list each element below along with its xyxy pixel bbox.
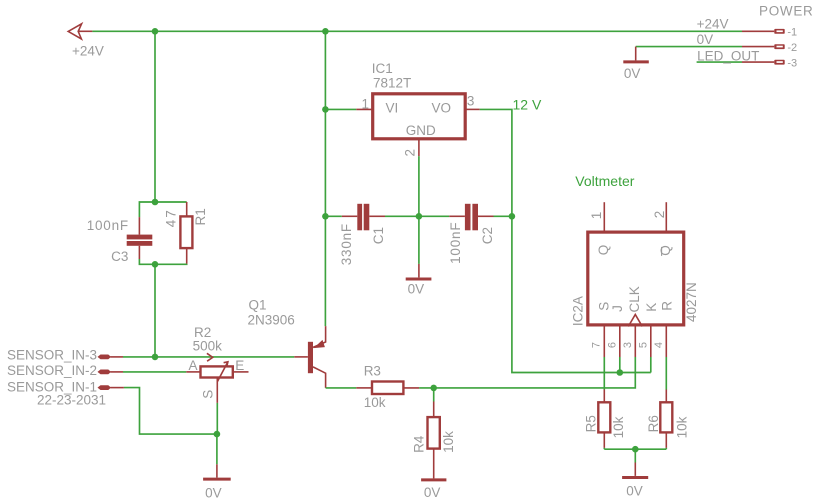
wire LED_OUT stub (697, 61, 742, 63)
node junction trunk2/top rail (322, 28, 329, 35)
wire J pin down (619, 357, 621, 373)
capacitor C3 top pin (138, 217, 140, 235)
wire C3 top link (139, 202, 155, 217)
svg-text:4: 4 (653, 342, 665, 348)
ground pin stub (cap row) (418, 264, 420, 278)
ground bar (pot) (203, 478, 231, 481)
ground pin stub (R5R6) (634, 463, 636, 476)
node junction gnd row (632, 446, 639, 453)
ground bar (power) (623, 60, 649, 63)
ground pin stub (pot) (216, 464, 218, 477)
resistor R3 body (372, 382, 403, 395)
svg-text:SENSOR_IN-2: SENSOR_IN-2 (7, 363, 97, 378)
resistor R1 top pin (186, 202, 188, 216)
node junction mid cap row (416, 213, 423, 220)
svg-text:IC1: IC1 (372, 61, 393, 76)
potentiometer R2 pin A stub (186, 371, 200, 373)
svg-text:10k: 10k (611, 416, 626, 438)
svg-text:J: J (610, 305, 625, 312)
svg-text:6: 6 (607, 342, 619, 348)
wire 0V net to connector (636, 46, 742, 48)
connector X1 pin -2 stub (742, 46, 774, 48)
svg-text:2: 2 (652, 211, 667, 219)
wire R1 bottom link (155, 263, 187, 265)
IC2A pin 5 stub (K) (650, 325, 652, 357)
potentiometer R2 wiper arrow diagonal (217, 362, 228, 382)
wire to IC1 VI (325, 108, 356, 110)
svg-text:R1: R1 (193, 208, 208, 225)
IC1 box (373, 94, 466, 139)
svg-text:1: 1 (589, 212, 604, 220)
resistor R4 top pin (433, 402, 435, 418)
svg-text:K: K (644, 303, 659, 312)
resistor R3 left pin (356, 387, 372, 389)
svg-text:C1: C1 (371, 227, 386, 244)
svg-text:330nF: 330nF (339, 223, 354, 265)
svg-text:S: S (200, 390, 215, 399)
supply arrow pin stub (78, 30, 93, 32)
svg-text:GND: GND (406, 123, 436, 138)
node junction R3/R4 (430, 385, 437, 392)
connector SL1 pad 3 (98, 355, 112, 360)
wire K pin down (650, 357, 652, 373)
node junction R1C3 bottom (152, 261, 159, 268)
wire sensor3 row (123, 356, 294, 358)
svg-text:Q1: Q1 (249, 298, 267, 313)
connector X1 pad -1 (774, 29, 784, 34)
resistor R6 top pin (665, 390, 667, 403)
svg-text:Q: Q (596, 245, 611, 256)
svg-text:SENSOR_IN-3: SENSOR_IN-3 (7, 348, 97, 363)
svg-text:-3: -3 (787, 58, 797, 70)
svg-text:4027N: 4027N (684, 282, 699, 322)
ground bar (R4) (421, 478, 446, 481)
wire sensor1 row (124, 388, 217, 435)
svg-text:0V: 0V (408, 281, 425, 296)
potentiometer R2 body (201, 366, 233, 377)
svg-text:R3: R3 (364, 363, 381, 378)
svg-text:LED_OUT: LED_OUT (697, 48, 759, 63)
svg-text:7: 7 (591, 342, 603, 348)
wire C2 to 12V rail (494, 215, 512, 217)
wire R5 to gnd row (603, 448, 605, 449)
svg-text:0V: 0V (626, 484, 643, 499)
svg-text:12 V: 12 V (513, 96, 542, 112)
svg-text:10k: 10k (441, 431, 456, 453)
ground pin stub (power) (635, 47, 637, 61)
connector SL1 pin 2 stub (110, 371, 123, 373)
supply arrow +24V (68, 24, 81, 39)
resistor R5 body (598, 402, 610, 432)
IC2A pin 2 stub (Qbar) (665, 202, 667, 232)
svg-text:+24V: +24V (697, 17, 729, 32)
node junction J pin (617, 369, 624, 376)
svg-text:VO: VO (432, 101, 452, 116)
connector SL1 pad 1 (98, 385, 112, 390)
potentiometer R2 pin E stub (233, 371, 249, 373)
wire S pin to R5 (603, 357, 605, 390)
wire cap row left (325, 215, 341, 217)
node junction 12V rail cap row (509, 213, 516, 220)
svg-text:VI: VI (386, 101, 399, 116)
wire R pin to R6 (665, 357, 667, 390)
wire C1 to mid junction (385, 215, 419, 217)
resistor R6 body (660, 402, 672, 432)
svg-text:R6: R6 (646, 415, 661, 432)
wire S to ground row (216, 403, 218, 434)
transistor Q1 collector pin (313, 367, 326, 388)
svg-text:7812T: 7812T (373, 75, 411, 90)
svg-text:R4: R4 (411, 435, 426, 453)
IC2A box (588, 232, 684, 325)
resistor R5 top pin (603, 390, 605, 403)
node junction IC1 pin1 (322, 106, 329, 113)
connector SL1 pin 3 stub (110, 356, 123, 358)
resistor R6 bottom pin (665, 432, 667, 448)
wire C3 bottom link (139, 259, 155, 264)
svg-text:0V: 0V (424, 485, 441, 500)
connector SL1 pad 2 (98, 370, 112, 375)
svg-text:100nF: 100nF (87, 218, 129, 233)
svg-text:22-23-2031: 22-23-2031 (37, 392, 106, 407)
capacitor C3 plates (127, 235, 153, 246)
IC1 pin 3 stub (465, 108, 480, 110)
wire R6 to gnd row (665, 448, 667, 449)
svg-text:5: 5 (637, 342, 649, 348)
svg-text:R: R (659, 301, 674, 311)
connector X1 pad -2 (774, 44, 784, 49)
svg-text:2: 2 (403, 149, 418, 157)
IC1 pin 2 stub (GND) (418, 139, 420, 156)
ground bar (R5R6) (622, 476, 648, 479)
IC2A pin 1 stub (Q) (603, 202, 605, 232)
capacitor C2 right pin (478, 215, 494, 217)
svg-text:CLK: CLK (627, 286, 642, 312)
svg-text:100nF: 100nF (448, 222, 463, 264)
transistor Q1 emitter arrow (314, 340, 325, 348)
capacitor C1 left pin (342, 215, 358, 217)
wire GND pin down to cap row (418, 156, 420, 216)
resistor R3 right pin (403, 387, 419, 389)
node junction sensor1/S (214, 431, 221, 438)
node junction cap row trunk2 (322, 213, 329, 220)
wire mid junction to C2 (419, 215, 449, 217)
potentiometer R2 wiper arrowhead (224, 362, 228, 366)
capacitor C1 right pin (369, 215, 385, 217)
transistor Q1 emitter pin (313, 326, 326, 347)
wire trunk2 to Q1 emitter (324, 216, 326, 326)
resistor R5 bottom pin (603, 432, 605, 448)
IC2A pin 7 stub (S) (603, 325, 605, 357)
svg-text:+24V: +24V (72, 44, 104, 59)
potentiometer R2 axis arrowhead on wire (207, 353, 213, 361)
resistor R1 body (180, 216, 192, 248)
resistor R4 bottom pin (433, 449, 435, 479)
wire trunk1 upper (154, 31, 156, 202)
IC2A pin 6 stub (J) (619, 325, 621, 357)
svg-text:0V: 0V (624, 66, 641, 81)
wire R3 to CLK (419, 357, 635, 388)
connector SL1 pin 1 stub (110, 387, 124, 389)
wire VO to 12V corner (480, 109, 512, 216)
capacitor C1 plates (357, 204, 369, 231)
capacitor C2 plates (465, 204, 478, 231)
svg-text:C3: C3 (111, 249, 128, 264)
pin name Qbar rotated (658, 245, 673, 256)
connector X1 pad -3 (774, 60, 784, 65)
wire gnd row drop (634, 449, 636, 462)
svg-text:10k: 10k (364, 395, 386, 410)
svg-text:-2: -2 (787, 42, 797, 54)
svg-text:3: 3 (467, 93, 475, 108)
wire 12V rail down (512, 216, 651, 372)
svg-text:R5: R5 (584, 415, 599, 432)
connector X1 pin -1 stub (742, 30, 774, 32)
capacitor C2 left pin (449, 215, 465, 217)
ground bar (cap row) (406, 278, 432, 281)
svg-text:47: 47 (164, 208, 179, 227)
svg-text:POWER: POWER (759, 4, 814, 19)
resistor R1 bottom pin (186, 248, 188, 264)
wire trunk1 lower (154, 264, 156, 357)
node junction trunk1/top rail (152, 28, 159, 35)
svg-text:3: 3 (622, 342, 634, 348)
svg-text:0V: 0V (205, 486, 222, 501)
svg-text:500k: 500k (193, 338, 223, 353)
wire R5-R6 ground row (604, 448, 666, 450)
potentiometer R2 pin S (216, 377, 218, 403)
svg-text:Q: Q (658, 245, 673, 256)
wire sensor2 row (123, 371, 186, 373)
wire R4 top link (433, 388, 435, 402)
IC2A pin 4 stub (R) (665, 325, 667, 357)
connector X1 pin -3 stub (742, 61, 774, 63)
wire collector to R3 (326, 387, 357, 389)
wire top +24V rail (92, 30, 742, 32)
svg-text:IC2A: IC2A (571, 296, 586, 326)
svg-text:A: A (189, 358, 198, 373)
wire trunk2 from rail to IC1 row (324, 31, 326, 216)
capacitor C3 bottom pin (138, 246, 140, 259)
transistor Q1 base bar (308, 342, 313, 373)
svg-text:2N3906: 2N3906 (248, 313, 295, 328)
wire R1 top link (155, 201, 187, 203)
clock wedge (CLK) (628, 315, 642, 327)
wire junction to ground (pot) (216, 434, 218, 464)
IC2A pin 3 stub (CLK) (634, 325, 636, 357)
svg-text:Voltmeter: Voltmeter (575, 173, 634, 189)
wire mid ground drop (418, 216, 420, 264)
transistor Q1 base pin (294, 356, 308, 358)
svg-text:C2: C2 (480, 227, 495, 244)
svg-text:E: E (235, 358, 244, 373)
svg-text:0V: 0V (697, 32, 714, 47)
node junction R1C3 top (152, 199, 159, 206)
node junction trunk1 sensor3 (152, 354, 159, 361)
svg-text:-1: -1 (787, 26, 797, 38)
svg-text:1: 1 (362, 96, 370, 111)
svg-text:10k: 10k (675, 416, 690, 438)
resistor R4 body (428, 417, 440, 449)
IC1 pin 1 stub (356, 108, 372, 110)
